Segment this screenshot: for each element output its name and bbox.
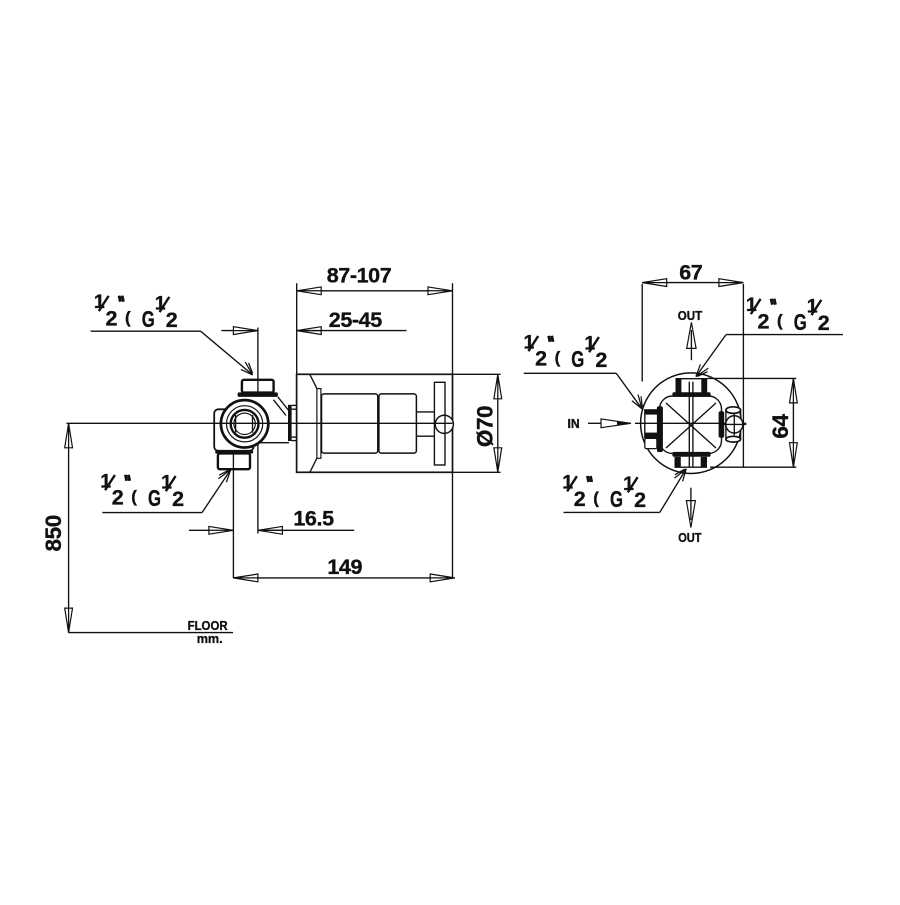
- top port right wall: [701, 379, 707, 393]
- big face circle: [641, 373, 742, 474]
- dimension 87-107: [297, 264, 453, 295]
- svg-text:67: 67: [679, 261, 703, 285]
- cartridge body right section: [379, 394, 417, 453]
- dimension 850: [41, 423, 73, 632]
- svg-text:149: 149: [327, 555, 362, 579]
- svg-text:mm.: mm.: [197, 631, 223, 646]
- right port circle horizontal line: [723, 423, 746, 425]
- port label 1/2"(G1/2 front bottom-left: [562, 465, 689, 512]
- plate edge chord through circle: [444, 415, 446, 433]
- spindle lower line: [416, 435, 434, 437]
- left port lower lug: [645, 438, 657, 448]
- bottom port bottom edge: [675, 466, 708, 468]
- extension line housing left x=296.7: [296, 283, 298, 374]
- top port flange band: [238, 392, 278, 397]
- stem screw circle: [435, 415, 453, 433]
- OUT top flow arrow: [687, 322, 696, 360]
- boss ring circle: [227, 406, 263, 442]
- svg-text:87-107: 87-107: [327, 264, 392, 288]
- extension line over top port center x=257.9: [257, 328, 259, 397]
- top port left wall: [676, 379, 682, 393]
- cross diagonal 2: [666, 403, 716, 448]
- extension line housing right x=452.5 lower: [452, 472, 454, 578]
- dimension 64: [707, 378, 797, 467]
- left port bottom wall: [645, 433, 658, 439]
- boss innermost circle: [234, 413, 255, 434]
- port label 1/2"(G1/2 top-left: [91, 291, 257, 377]
- bottom port right wall: [701, 457, 707, 467]
- svg-text:16.5: 16.5: [293, 507, 334, 531]
- right port top ellipse: [726, 407, 741, 414]
- neck bottom outer line: [292, 440, 297, 442]
- hex facet line top: [257, 380, 259, 393]
- right port cylinder left side: [725, 410, 727, 439]
- svg-text:25-45: 25-45: [329, 308, 382, 332]
- bottom port hex nut: [218, 453, 250, 469]
- extension line bottom port center x=233.4: [232, 451, 234, 578]
- bottom port flange band: [672, 452, 710, 457]
- neck bottom inner line: [292, 436, 297, 438]
- central body rounded square: [660, 396, 722, 454]
- top port flange band: [672, 392, 710, 397]
- dimension 67: [642, 261, 743, 468]
- left port flange band: [657, 406, 663, 452]
- cross diagonal 1: [666, 403, 716, 448]
- housing top-left chamfer: [310, 374, 317, 388]
- collar ring: [317, 389, 321, 459]
- OUT bottom flow arrow: [686, 488, 695, 528]
- svg-text:OUT: OUT: [678, 308, 703, 323]
- svg-text:IN: IN: [568, 416, 580, 431]
- svg-text:Ø70: Ø70: [473, 406, 498, 447]
- extension line below top port center to 16.5 dim: [257, 443, 259, 534]
- extension line housing right x=452.5 upper: [452, 283, 454, 374]
- neck top outer line: [292, 404, 297, 406]
- dimension 149: [233, 555, 454, 582]
- vertical center pair line 2: [692, 382, 694, 467]
- cartridge body left section: [322, 394, 378, 453]
- svg-text:64: 64: [768, 414, 793, 439]
- dimension 25-45: [221, 308, 406, 334]
- main centerline: [67, 422, 453, 424]
- dimension diameter 70: [453, 374, 502, 472]
- right port screw circle: [726, 416, 743, 433]
- right port flange band: [719, 411, 725, 438]
- stem plate: [434, 382, 445, 465]
- front centerline: [635, 422, 746, 424]
- port label 1/2"(G1/2 front top-right: [693, 294, 843, 380]
- top port hex nut: [242, 380, 274, 393]
- IN flow arrow: [588, 419, 631, 428]
- right port cylinder right side: [740, 410, 742, 439]
- port label 1/2"(G1/2 bottom-left: [100, 466, 233, 512]
- svg-text:850: 850: [41, 515, 66, 551]
- bottom port flange band: [215, 450, 253, 453]
- spindle upper line: [416, 411, 434, 413]
- vertical center pair line 1: [688, 382, 690, 467]
- body chamfer inner diagonal: [274, 400, 287, 416]
- housing bottom-left chamfer: [310, 458, 317, 472]
- port label 1/2"(G1/2 front left: [524, 331, 648, 411]
- boss thick inner circle: [231, 410, 259, 438]
- floor line: [69, 632, 233, 634]
- boss outer circle: [221, 400, 268, 447]
- bottom port left wall: [675, 457, 681, 467]
- top port top edge: [676, 378, 708, 380]
- right port bottom ellipse: [726, 436, 741, 442]
- neck flange bar: [288, 405, 292, 441]
- body bottom edge to neck: [256, 442, 289, 444]
- dimension 16.5: [189, 507, 354, 535]
- neck top inner line: [292, 408, 297, 410]
- hex facet line bottom: [232, 453, 234, 469]
- body chamfer outer diagonal: [278, 397, 292, 414]
- left port top wall: [645, 409, 658, 414]
- right port circle vertical line: [733, 414, 735, 436]
- housing outer rectangle: [297, 374, 453, 472]
- square drive left line: [235, 415, 237, 433]
- valve body block: [214, 409, 253, 451]
- svg-text:OUT: OUT: [678, 530, 701, 545]
- left port left edge: [644, 409, 646, 438]
- square drive right line: [252, 415, 254, 433]
